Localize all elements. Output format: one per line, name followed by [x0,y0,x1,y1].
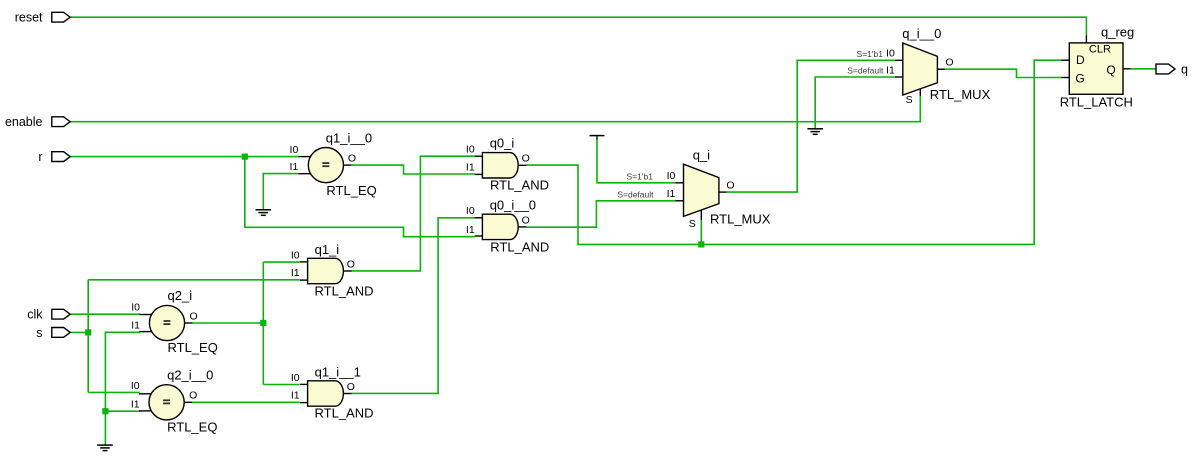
svg-text:q_reg: q_reg [1101,25,1134,40]
svg-text:O: O [726,180,734,192]
svg-text:O: O [945,57,953,69]
svg-text:S=default: S=default [847,66,884,76]
svg-text:O: O [347,381,355,393]
svg-text:q1_i: q1_i [315,242,340,257]
svg-text:O: O [522,215,530,227]
svg-text:I1: I1 [886,64,895,76]
svg-text:RTL_AND: RTL_AND [315,283,374,298]
svg-text:O: O [190,310,198,322]
svg-text:RTL_AND: RTL_AND [315,406,374,421]
svg-text:O: O [348,153,356,165]
svg-text:O: O [347,258,355,270]
svg-text:q0_i__0: q0_i__0 [490,197,536,212]
svg-text:I1: I1 [291,390,300,402]
svg-text:q0_i: q0_i [490,136,515,151]
svg-text:I0: I0 [131,302,140,314]
svg-text:s: s [36,326,42,340]
svg-text:I1: I1 [131,320,140,332]
svg-text:reset: reset [15,11,43,25]
svg-text:q2_i__0: q2_i__0 [167,368,213,383]
svg-text:I1: I1 [290,161,299,173]
svg-text:I0: I0 [291,372,300,384]
svg-text:S: S [906,94,913,106]
svg-text:I0: I0 [886,48,895,60]
svg-text:I0: I0 [290,144,299,156]
svg-text:q1_i__1: q1_i__1 [315,365,361,380]
svg-text:S=1'b1: S=1'b1 [857,49,884,59]
svg-text:O: O [189,390,197,402]
svg-text:S=1'b1: S=1'b1 [627,172,654,182]
svg-text:I0: I0 [667,170,676,182]
svg-text:q: q [1181,63,1188,77]
svg-text:O: O [522,153,530,165]
svg-text:I0: I0 [466,205,475,217]
svg-text:RTL_MUX: RTL_MUX [930,87,991,102]
svg-text:RTL_EQ: RTL_EQ [326,183,376,198]
svg-text:I1: I1 [466,161,475,173]
svg-text:S=default: S=default [617,190,654,200]
svg-text:RTL_LATCH: RTL_LATCH [1060,94,1133,109]
svg-text:q_i__0: q_i__0 [902,26,941,41]
svg-text:q1_i__0: q1_i__0 [326,130,372,145]
svg-text:G: G [1075,71,1084,85]
svg-text:RTL_EQ: RTL_EQ [168,340,218,355]
svg-text:r: r [38,150,42,164]
svg-text:RTL_AND: RTL_AND [490,177,549,192]
svg-text:I1: I1 [131,399,140,411]
svg-text:clk: clk [27,308,43,322]
svg-text:RTL_EQ: RTL_EQ [167,419,217,434]
svg-text:S: S [689,218,696,230]
svg-text:q_i: q_i [693,147,710,162]
svg-text:RTL_AND: RTL_AND [490,240,549,255]
svg-text:D: D [1076,53,1085,67]
svg-text:I1: I1 [466,224,475,236]
svg-text:I0: I0 [291,250,300,262]
svg-text:CLR: CLR [1089,44,1111,56]
svg-text:enable: enable [5,115,43,129]
svg-text:RTL_MUX: RTL_MUX [710,212,771,227]
svg-text:q2_i: q2_i [168,288,193,303]
svg-text:I0: I0 [466,144,475,156]
svg-text:Q: Q [1106,63,1115,77]
svg-text:I1: I1 [291,267,300,279]
svg-text:I0: I0 [131,380,140,392]
svg-text:I1: I1 [667,188,676,200]
